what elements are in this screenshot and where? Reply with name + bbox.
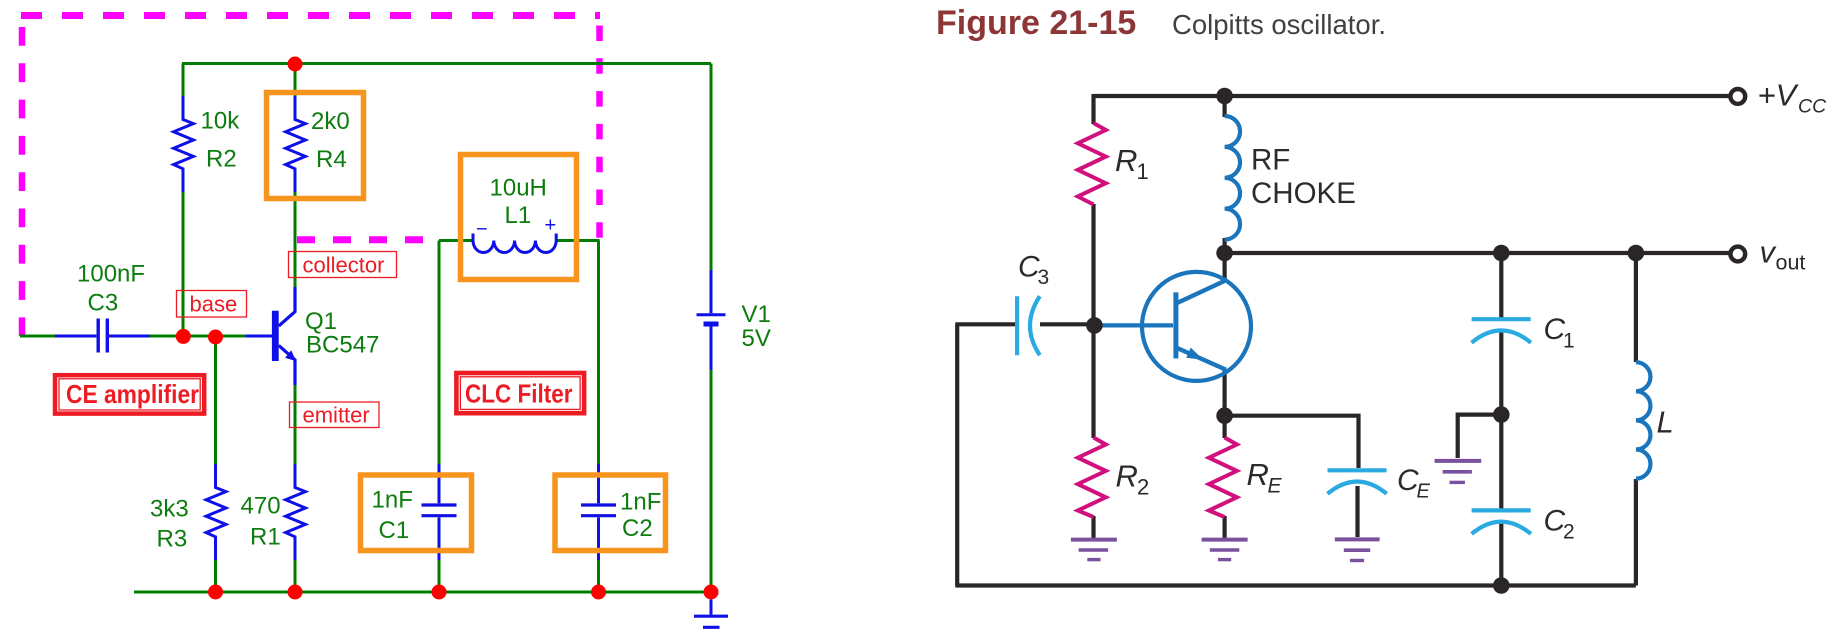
svg-text:1: 1 <box>1137 159 1149 184</box>
ground RE <box>1202 540 1248 560</box>
node collector-choke junction <box>1216 245 1233 262</box>
inductor L1 <box>473 215 556 253</box>
svg-text:1: 1 <box>1563 330 1575 353</box>
svg-text:L: L <box>1657 405 1674 440</box>
wire RE to ground <box>1222 516 1226 539</box>
capacitor C2 <box>1472 510 1531 534</box>
wire filter top left <box>439 239 474 242</box>
capacitor CE <box>1328 470 1387 494</box>
wire C1 bottom <box>438 559 441 592</box>
svg-text:+V: +V <box>1758 78 1800 113</box>
svg-text:R2: R2 <box>206 146 237 173</box>
wire collector <box>294 191 297 288</box>
wire bottom ground rail <box>134 591 711 594</box>
svg-text:C1: C1 <box>379 517 410 544</box>
wire C2 bottom <box>597 559 600 592</box>
wire input to C3 <box>20 335 55 338</box>
node vout L junction <box>1628 245 1645 262</box>
resistor R2 <box>1078 438 1106 518</box>
wire emitter <box>1222 370 1226 417</box>
svg-text:5V: 5V <box>742 325 771 352</box>
resistor R4 <box>286 96 306 192</box>
node ground C2 <box>591 585 606 600</box>
wire +Vcc rail <box>1094 94 1730 98</box>
ground CE <box>1335 539 1380 560</box>
node ground R3 <box>208 585 223 600</box>
wire C3 to base node <box>150 335 247 338</box>
wire choke top lead <box>1222 96 1226 117</box>
wire emitter to R1 <box>294 384 297 465</box>
svg-text:10k: 10k <box>201 108 241 135</box>
node ground R1 <box>288 585 303 600</box>
node Vcc-choke junction <box>1216 88 1233 105</box>
svg-text:10uH: 10uH <box>490 174 547 201</box>
svg-text:470: 470 <box>241 493 281 520</box>
svg-text:CLC Filter: CLC Filter <box>465 379 573 409</box>
inductor L <box>1636 362 1651 478</box>
capacitor C2 <box>581 464 616 560</box>
svg-text:BC547: BC547 <box>306 332 379 359</box>
svg-text:E: E <box>1417 481 1431 503</box>
wire L top lead <box>1634 253 1638 362</box>
wire L bottom lead <box>1634 479 1638 586</box>
svg-text:Colpitts oscillator.: Colpitts oscillator. <box>1172 9 1386 40</box>
label base <box>177 291 247 318</box>
CE amplifier boundary (magenta dashed outline) <box>21 16 600 337</box>
wire choke bottom lead <box>1222 238 1226 253</box>
wire R1 to base node to R2 <box>1091 204 1095 438</box>
capacitor C3 <box>55 319 150 353</box>
node base right <box>208 330 223 345</box>
highlight box R4 <box>267 93 364 199</box>
svg-text:R1: R1 <box>250 524 281 551</box>
svg-text:−: − <box>476 219 488 241</box>
capacitor C1 <box>422 464 457 560</box>
wire feedback left vertical <box>955 324 959 585</box>
node ground C1 <box>432 585 447 600</box>
node vout C1 junction <box>1493 245 1510 262</box>
svg-text:E: E <box>1268 475 1283 498</box>
svg-text:v: v <box>1760 235 1777 270</box>
svg-text:V1: V1 <box>742 301 771 328</box>
terminal +Vcc <box>1730 89 1745 104</box>
label emitter <box>290 402 380 428</box>
wire filter top right <box>555 239 600 242</box>
wire C3 right <box>1040 322 1094 326</box>
svg-text:1nF: 1nF <box>620 489 661 516</box>
svg-text:base: base <box>190 292 238 317</box>
node bottom rail junction <box>1493 577 1510 594</box>
resistor RE <box>1209 438 1237 518</box>
wire R4 top lead <box>294 64 297 98</box>
svg-text:R: R <box>1115 143 1137 178</box>
svg-text:emitter: emitter <box>303 403 370 428</box>
svg-text:2k0: 2k0 <box>311 108 350 135</box>
svg-text:+: + <box>545 215 557 237</box>
wire R3 bottom <box>214 559 217 592</box>
figure caption <box>936 4 1386 42</box>
svg-text:collector: collector <box>303 253 385 278</box>
node top rail junction <box>288 57 303 72</box>
highlight box L1 <box>461 155 577 280</box>
wire C1 branch vertical <box>438 241 441 466</box>
wire vout rail <box>1225 251 1730 255</box>
wire R1 top lead <box>1091 94 1095 124</box>
wire V1 bottom <box>710 369 713 592</box>
svg-text:C3: C3 <box>88 290 119 317</box>
node ground V1 <box>704 585 719 600</box>
node base left <box>176 329 191 344</box>
svg-text:3: 3 <box>1038 266 1050 289</box>
wire C1 top lead <box>1499 253 1503 318</box>
svg-text:100nF: 100nF <box>77 261 145 288</box>
wire C2 branch vertical <box>597 241 600 466</box>
resistor R2 <box>174 96 194 192</box>
inductor RF choke <box>1225 116 1240 240</box>
capacitor C1 <box>1472 319 1531 343</box>
ground R2 <box>1071 540 1117 560</box>
svg-text:R: R <box>1247 457 1269 492</box>
wire bottom rail <box>955 583 1636 587</box>
ground tap between C1 and C2 <box>1435 461 1482 483</box>
wire V1 top <box>710 64 713 272</box>
node base junction <box>1086 317 1103 334</box>
wire C2 to bottom rail <box>1499 522 1503 586</box>
label CLC Filter <box>456 373 584 413</box>
resistor R1 <box>1078 123 1106 205</box>
wire mid node to C2 <box>1499 415 1503 509</box>
svg-text:CC: CC <box>1798 96 1827 118</box>
svg-text:out: out <box>1776 251 1806 275</box>
highlight box C2 <box>555 475 666 551</box>
svg-text:2: 2 <box>1563 521 1575 544</box>
ground <box>694 600 728 628</box>
wire collector <box>1222 253 1226 282</box>
wire base node to R3 <box>214 337 217 465</box>
svg-text:R: R <box>1116 459 1138 494</box>
transistor Q1 <box>246 287 296 385</box>
node emitter junction <box>1216 407 1233 424</box>
wire emitter to CE <box>1225 416 1359 468</box>
resistor R3 <box>206 464 226 560</box>
wire RE top lead <box>1222 416 1226 438</box>
wire R2 top lead <box>182 64 185 98</box>
label collector <box>289 252 397 278</box>
svg-text:C2: C2 <box>622 515 653 542</box>
svg-text:R3: R3 <box>157 525 188 552</box>
svg-text:CE amplifier: CE amplifier <box>66 379 199 409</box>
wire R2 bottom to base node <box>182 191 185 336</box>
capacitor C3 <box>1017 296 1040 355</box>
svg-text:L1: L1 <box>505 202 532 229</box>
transistor (BJT) <box>1098 272 1251 381</box>
svg-text:3k3: 3k3 <box>150 496 189 523</box>
label CE amplifier <box>55 375 204 413</box>
highlight box C1 <box>361 475 472 551</box>
wire R2 to ground <box>1091 516 1095 539</box>
wire R1 bottom <box>294 559 297 592</box>
wire C1 to mid node <box>1499 331 1503 415</box>
wire mid node to ground tap <box>1458 415 1502 458</box>
battery V1 <box>697 270 726 370</box>
svg-text:R4: R4 <box>316 146 347 173</box>
node C1-C2 mid junction <box>1493 406 1510 423</box>
svg-text:1nF: 1nF <box>372 487 413 514</box>
svg-text:Figure 21-15: Figure 21-15 <box>936 4 1136 42</box>
svg-text:2: 2 <box>1137 475 1149 500</box>
svg-text:RF: RF <box>1251 144 1290 177</box>
resistor R1 <box>286 464 306 560</box>
wire C3 left <box>955 322 1015 326</box>
terminal vout <box>1730 247 1745 262</box>
wire top supply rail <box>182 62 711 65</box>
wire CE to ground <box>1355 486 1359 537</box>
svg-text:CHOKE: CHOKE <box>1251 177 1356 210</box>
